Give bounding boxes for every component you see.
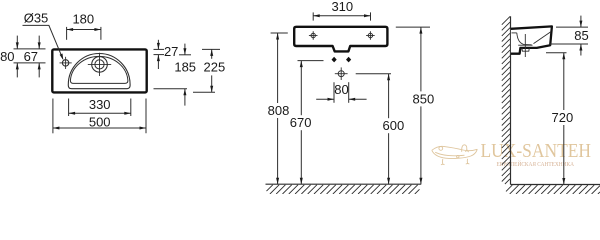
svg-text:185: 185 [174, 59, 196, 74]
leader line for diameter 35 [23, 25, 63, 58]
dimension 500 [53, 99, 146, 134]
svg-text:LUX-SANTEH: LUX-SANTEH [481, 140, 592, 162]
mounting hole left [311, 33, 315, 37]
plan bowl inner rim [70, 56, 128, 83]
svg-text:850: 850 [413, 91, 435, 106]
floor hatching middle [267, 185, 420, 194]
mounting hole right [368, 33, 372, 37]
dimension 330 [69, 97, 131, 116]
svg-text:808: 808 [268, 103, 290, 118]
dimension 80 front [316, 82, 366, 103]
faucet hole [62, 60, 68, 66]
side view front slope [534, 32, 551, 44]
plan bowl outer rim [68, 53, 130, 88]
svg-text:720: 720 [552, 110, 574, 125]
fixing hole diamond left [332, 57, 337, 63]
side view drain cup [522, 48, 529, 51]
svg-text:330: 330 [89, 97, 111, 112]
fixing hole diamond right [346, 57, 351, 63]
dimension 310 [313, 0, 370, 21]
svg-text:310: 310 [331, 0, 353, 14]
svg-text:80: 80 [334, 82, 348, 97]
dimension 80 left [0, 36, 45, 78]
front view basin outline with drain notch [294, 27, 387, 52]
dimension 850 [396, 27, 434, 184]
svg-text:85: 85 [574, 28, 588, 43]
dimension 27 [154, 40, 179, 69]
side view drain centerline horizontal [518, 44, 532, 46]
dimension 720 [546, 53, 573, 185]
dimension 225 [193, 49, 225, 92]
watermark bathtub logo [432, 145, 478, 165]
dimension 180 [67, 12, 101, 40]
wall line [510, 16, 512, 184]
floor line right [511, 184, 600, 186]
dimension 185 [154, 44, 197, 106]
side view basin profile [511, 26, 552, 53]
floor hatching right [506, 185, 600, 194]
faucet hole centerlines [65, 57, 67, 69]
svg-text:225: 225 [204, 59, 226, 74]
side view bowl interior [517, 33, 532, 45]
dimension 600 [356, 74, 405, 185]
drain outer circle [92, 57, 108, 73]
dimension 85 [549, 16, 589, 56]
svg-text:67: 67 [24, 49, 38, 64]
side view back ledge [512, 32, 517, 34]
drain inner circle [95, 60, 104, 69]
dimension 808 [268, 33, 290, 184]
floor line middle [266, 183, 422, 185]
plan view basin outline [52, 49, 146, 92]
svg-text:27: 27 [164, 44, 178, 59]
side view drain centerline vertical [524, 34, 526, 57]
svg-text:Ø35: Ø35 [24, 10, 49, 25]
svg-text:180: 180 [72, 12, 94, 27]
svg-text:80: 80 [0, 49, 14, 64]
svg-text:670: 670 [290, 115, 312, 130]
drain centerlines [99, 53, 101, 76]
wall hatching [502, 17, 510, 185]
drain position circle [338, 71, 344, 77]
dimension 670 [290, 61, 324, 185]
svg-text:500: 500 [89, 114, 111, 129]
dimension 67 left [24, 36, 41, 78]
svg-text:600: 600 [383, 118, 405, 133]
